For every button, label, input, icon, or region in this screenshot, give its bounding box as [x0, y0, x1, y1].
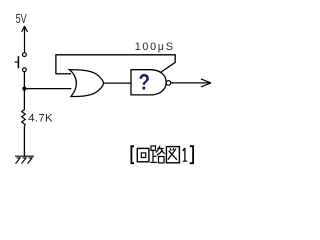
- caption closing bracket: [190, 146, 193, 163]
- wire node A to OR gate lower input: [24, 88, 71, 90]
- caption kanji ZU (図) box: [166, 147, 179, 163]
- output wire: [171, 82, 211, 84]
- node A junction dot: [22, 87, 26, 91]
- ground bar: [15, 155, 34, 157]
- svg-text:4.7K: 4.7K: [28, 113, 53, 125]
- caption kanji KAI (回) outer box: [137, 148, 149, 161]
- output arrowhead: [201, 79, 211, 87]
- wire switch to node A: [23, 72, 25, 89]
- ground hatch 1: [16, 158, 21, 164]
- pushbutton switch SW1 bottom contact: [23, 68, 27, 72]
- pushbutton switch SW1 actuator bar: [17, 56, 19, 68]
- wire resistor to ground: [23, 127, 25, 156]
- wire OR gate upper input stub: [55, 73, 71, 75]
- caption opening bracket: [131, 146, 134, 163]
- arrow up to 5V: [22, 26, 28, 52]
- caption digit 1: [183, 148, 188, 161]
- ground hatch 3: [28, 158, 33, 164]
- pushbutton switch SW1 top contact: [23, 53, 27, 57]
- pushbutton switch SW1 actuator tick: [15, 61, 18, 63]
- OR gate U1 body: [69, 70, 104, 97]
- caption kanji RO (路) right radical: [156, 146, 165, 163]
- wire feedback loop to OR gate upper input: [56, 55, 175, 74]
- wire OR gate output to U2: [104, 82, 132, 84]
- svg-text:100μS: 100μS: [135, 41, 175, 53]
- caption kanji RO (路) left radical: [150, 146, 157, 162]
- wire node A down to resistor: [23, 89, 25, 110]
- U2 output inversion bubble: [166, 81, 171, 86]
- mystery gate U2 body: [131, 70, 166, 95]
- ground hatch 2: [22, 158, 27, 164]
- resistor R1 zigzag: [22, 110, 26, 127]
- svg-text:?: ?: [139, 69, 150, 94]
- caption kanji ZU (図) inner strokes: [168, 148, 177, 160]
- caption kanji KAI (回) inner box: [141, 153, 145, 158]
- svg-text:5V: 5V: [16, 11, 27, 26]
